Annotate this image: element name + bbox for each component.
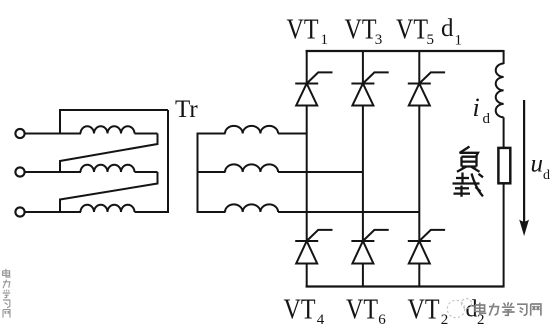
primary winding W3 (delta bottom) [81,205,135,212]
wire leg 1 middle [306,106,308,242]
wire phase a to leg 1 [278,133,307,135]
wire phase A input [25,133,81,135]
thyristor VT2 [408,230,445,288]
secondary winding W5 (phase b) [225,164,278,172]
wire stub c [197,211,226,213]
svg-text:VT: VT [346,294,378,326]
wire W3 to right rail [135,211,170,213]
wire delta top rail [59,109,168,111]
wire stub b [197,171,226,173]
wire phase C input [25,211,81,213]
svg-text:VT: VT [287,14,319,46]
wire delta right rail [167,110,169,212]
svg-text:u: u [531,151,544,178]
svg-text:i: i [473,93,480,122]
wire delta link 2 (wedge) [60,172,158,212]
terminal C [15,207,24,216]
wire inductor to load [503,117,505,148]
svg-text:VT: VT [408,294,440,326]
secondary winding W4 (phase a) [225,126,278,134]
thyristor VT4 [295,230,332,288]
svg-text:3: 3 [375,32,383,48]
svg-text:4: 4 [317,312,325,328]
watermark text 电力学习网 (bottom right) [475,303,541,316]
svg-text:VT: VT [396,14,428,46]
label 载 (load char 2) [453,173,484,197]
primary winding W1 (delta top) [81,126,135,133]
secondary winding W6 (phase c) [225,204,278,212]
wire W2 right tail [135,171,158,173]
thyristor VT3 [351,50,388,106]
thyristor VT1 [295,50,332,106]
primary winding W2 (delta middle) [81,165,135,172]
wire load to bottom bus [503,183,505,287]
thyristor VT6 [351,230,388,288]
svg-text:1: 1 [321,32,329,48]
label 负 (load char 1) [457,147,480,172]
load resistor [498,148,510,183]
wire phase b to leg 2 [278,171,363,173]
svg-text:6: 6 [378,312,386,328]
watermark logo (dashed circles) [447,299,471,318]
wire top-right drop [503,50,505,64]
wire leg 2 middle [362,106,364,242]
svg-text:VT: VT [284,294,316,326]
svg-text:2: 2 [441,312,449,328]
terminal B [15,167,24,176]
thyristor VT5 [408,50,445,106]
wire phase c to leg 3 [278,211,419,213]
wire stub a [197,133,226,135]
wire W1 right tail [135,133,158,135]
terminal A [15,129,24,138]
watermark text 电力学习网 (left edge, vertical) [3,269,11,318]
wire delta left vertical [59,110,61,134]
svg-text:Tr: Tr [175,96,198,123]
svg-text:d: d [543,168,550,183]
wire top bus (+) [306,50,504,52]
svg-text:d: d [483,111,491,127]
wire phase B input [25,171,81,173]
svg-text:1: 1 [455,33,463,49]
arrow ud (voltage direction) [519,100,529,236]
svg-text:VT: VT [345,14,377,46]
wire secondary neutral rail [197,134,199,213]
inductor Ld (smoothing reactor) [496,64,504,118]
wire delta link 1 (wedge) [60,134,158,173]
svg-text:d: d [441,15,454,42]
svg-text:2: 2 [477,312,485,328]
svg-text:5: 5 [427,32,435,48]
wire bottom bus (-) [306,285,504,287]
wire leg 3 middle [418,106,420,242]
